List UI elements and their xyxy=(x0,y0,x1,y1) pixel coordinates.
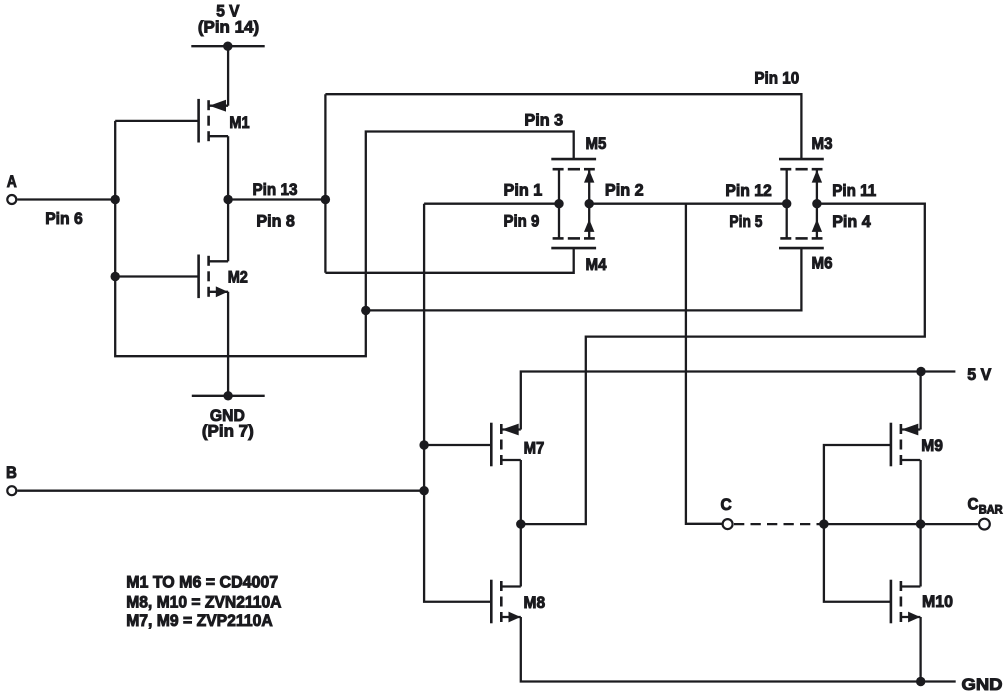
svg-text:B: B xyxy=(6,463,17,482)
junction M5/M6 gate route xyxy=(361,306,370,315)
wire M7 drain to node xyxy=(520,460,522,524)
wire M10 source to GND rail xyxy=(919,617,921,682)
wire Abar route to M4 gate xyxy=(325,248,573,273)
terminal C xyxy=(723,519,733,529)
svg-text:Pin 5: Pin 5 xyxy=(729,212,762,231)
wire gate node to M10 gate xyxy=(824,524,891,602)
wire TG2 gate M6 route xyxy=(366,248,802,310)
svg-text:(Pin 7): (Pin 7) xyxy=(202,422,254,441)
wire node to M8 drain xyxy=(520,524,522,586)
svg-text:Pin 8: Pin 8 xyxy=(256,212,295,231)
svg-text:5 V: 5 V xyxy=(967,365,992,384)
wire TG1 right lead (Pin 2) xyxy=(588,169,590,238)
wire C tap down xyxy=(686,204,722,524)
svg-text:Pin 3: Pin 3 xyxy=(524,110,563,129)
junction on 5V bar xyxy=(223,42,232,51)
junction M2 gate xyxy=(111,272,120,281)
node M9/M10 gate junction xyxy=(819,519,828,528)
transistor M5 xyxy=(551,159,596,183)
svg-text:M3: M3 xyxy=(812,134,833,153)
wire M1 gate xyxy=(115,120,198,122)
svg-text:C: C xyxy=(721,495,732,514)
wire TG2 left lead (Pin 12/Pin 5) xyxy=(786,169,788,238)
svg-text:Pin 12: Pin 12 xyxy=(725,181,771,200)
wire output node to Abar column xyxy=(228,198,325,200)
svg-text:C: C xyxy=(968,495,979,514)
node Abar junction xyxy=(321,195,330,204)
wire 5V bar to M1 drain xyxy=(227,46,229,105)
node TG1 left xyxy=(554,199,563,208)
node M7/M8 output xyxy=(516,519,525,528)
wire M9 source to Cbar node xyxy=(919,460,921,524)
node B junction xyxy=(419,486,428,495)
node TG1 right xyxy=(585,199,594,208)
wire M8 source to GND rail xyxy=(521,617,956,682)
transistor M2 xyxy=(199,255,229,299)
svg-text:Pin 6: Pin 6 xyxy=(45,209,83,228)
transistor M3 xyxy=(779,159,824,183)
junction GND rail M10 xyxy=(916,677,925,686)
ground GND (Pin 7) bar xyxy=(192,395,265,397)
transistor M6 xyxy=(779,219,824,248)
svg-text:(Pin 14): (Pin 14) xyxy=(198,18,259,37)
wire dashed C to gate node xyxy=(734,523,820,525)
transistor M1 xyxy=(199,99,229,143)
svg-text:Pin 2: Pin 2 xyxy=(605,180,644,199)
svg-text:Pin 4: Pin 4 xyxy=(832,212,871,231)
svg-text:Pin 9: Pin 9 xyxy=(504,212,540,231)
wire B to column xyxy=(17,490,424,492)
svg-text:M6: M6 xyxy=(812,253,833,272)
wire M2 source to GND xyxy=(227,292,229,396)
wire M2 gate xyxy=(115,275,198,277)
junction M7 gate xyxy=(419,440,428,449)
wire gate node to M9 gate xyxy=(824,445,891,524)
node A junction xyxy=(111,195,120,204)
wire M7 gate xyxy=(424,444,491,446)
svg-text:M9: M9 xyxy=(921,436,943,455)
wire M9 drain to 5V rail xyxy=(919,372,921,430)
wire gate node to Cbar node xyxy=(824,523,921,525)
terminal A xyxy=(7,195,16,204)
svg-text:Pin 11: Pin 11 xyxy=(832,181,876,200)
wire A to gate column xyxy=(17,198,115,200)
transistor M8 xyxy=(491,580,521,624)
wire TG2 right lead (Pin 11/Pin 4) xyxy=(816,169,818,238)
svg-text:M10: M10 xyxy=(922,592,953,611)
terminal B xyxy=(7,486,16,495)
svg-text:M1: M1 xyxy=(229,113,249,132)
svg-text:M1 TO M6 = CD4007: M1 TO M6 = CD4007 xyxy=(126,573,278,592)
wire B column xyxy=(424,204,491,602)
transistor M4 xyxy=(551,219,596,248)
wire M7 source to 5V rail xyxy=(521,372,956,430)
node M9/M10 output Cbar xyxy=(916,519,925,528)
wire TG1 output to TG2 input (Pin 2 net) xyxy=(589,203,787,205)
node TG2 left xyxy=(782,199,791,208)
wire M1 source to output node xyxy=(227,136,229,199)
wire Pin 10 route to M3 gate xyxy=(325,94,801,159)
node Pin13/Pin8 output xyxy=(223,195,232,204)
junction 5V rail M9 xyxy=(916,367,925,376)
wire Abar column xyxy=(324,94,326,273)
svg-text:Pin 10: Pin 10 xyxy=(754,68,799,87)
transistor M7 xyxy=(491,423,521,467)
wire Cbar node to M10 drain xyxy=(919,524,921,586)
power 5V (Pin 14) rail bar xyxy=(191,45,264,47)
transistor M10 xyxy=(891,580,921,624)
wire TG1 left lead (Pin 1/Pin 9) xyxy=(558,169,560,238)
svg-text:M7, M9 = ZVP2110A: M7, M9 = ZVP2110A xyxy=(126,611,273,630)
svg-text:Pin 13: Pin 13 xyxy=(253,180,298,199)
svg-text:M8, M10 = ZVN2110A: M8, M10 = ZVN2110A xyxy=(126,592,281,611)
svg-text:M8: M8 xyxy=(524,593,546,612)
transistor M9 xyxy=(891,423,921,467)
svg-text:A: A xyxy=(7,172,17,191)
svg-text:Pin 1: Pin 1 xyxy=(504,180,543,199)
wire TG2 output route to M7/M8 node xyxy=(521,204,925,524)
wire B column to TG1 input xyxy=(424,203,559,205)
wire A gate column and route to M5/M6 gates xyxy=(115,121,574,356)
junction on GND bar xyxy=(223,391,232,400)
wire M2 drain to output node xyxy=(227,200,229,262)
terminal Cbar xyxy=(979,519,990,530)
svg-text:BAR: BAR xyxy=(979,505,1004,517)
svg-text:M4: M4 xyxy=(586,255,607,274)
svg-text:M2: M2 xyxy=(228,267,248,286)
wire Cbar node to terminal xyxy=(921,523,978,525)
svg-text:GND: GND xyxy=(962,675,1003,694)
node TG2 right xyxy=(812,199,821,208)
svg-text:M5: M5 xyxy=(586,134,607,153)
svg-text:M7: M7 xyxy=(524,438,545,457)
